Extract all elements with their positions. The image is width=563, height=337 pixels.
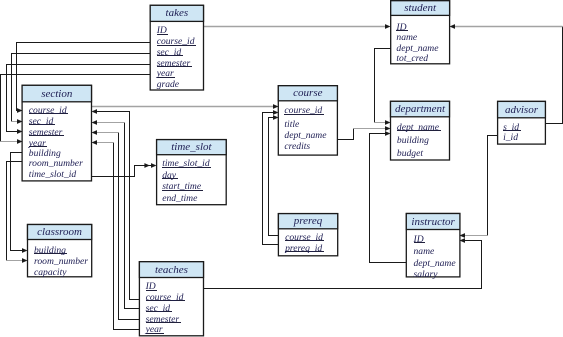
attr section.sec_id	[29, 116, 55, 128]
attr department.building	[397, 135, 429, 147]
attr takes.course_id	[157, 36, 196, 48]
wire takes.course_id to section	[17, 43, 151, 113]
table department box	[391, 101, 450, 160]
wire takes.sec_id to section	[12, 54, 151, 122]
table prereq box	[278, 214, 337, 256]
wire advisor.i_id wire	[488, 136, 498, 236]
wire section.room_number wire	[7, 162, 23, 261]
wire teaches.sec_id wire	[125, 123, 140, 309]
table prereq title	[278, 214, 337, 228]
attr advisor.s_id	[503, 122, 521, 134]
attr classroom.building	[34, 245, 67, 257]
table course box	[278, 86, 337, 155]
wire teaches.course_id to section	[92, 109, 140, 299]
attr section.room_number	[29, 158, 83, 170]
wire section.time_slot_id to time_slot	[92, 163, 157, 176]
attr prereq.course_id	[285, 232, 324, 244]
attr time_slot.day	[162, 170, 177, 182]
attr takes.grade	[157, 79, 179, 91]
table time_slot title	[157, 140, 227, 154]
table instructor title	[406, 215, 460, 229]
attr student.dept_name	[396, 43, 438, 55]
table department title	[391, 102, 450, 116]
table section box	[22, 85, 91, 181]
attr teaches.ID	[146, 281, 158, 293]
attr department.budget	[397, 148, 423, 160]
table section title	[22, 87, 91, 101]
attr prereq.prereq_id	[285, 243, 324, 255]
attr course.dept_name	[284, 130, 326, 142]
wire advisor.s_id wire	[546, 27, 563, 124]
wire takes.year to section	[1, 75, 151, 142]
wire advisor.s_id to student gray	[450, 24, 563, 29]
attr classroom.capacity	[34, 267, 67, 279]
wire course.dept_name arrow seg	[354, 126, 391, 131]
attr time_slot.start_time	[162, 181, 202, 193]
table advisor box	[498, 101, 546, 144]
attr takes.sec_id	[157, 47, 183, 59]
attr course.title	[284, 119, 299, 131]
table classroom title	[28, 225, 92, 239]
attr instructor.ID	[414, 234, 426, 246]
table takes title	[150, 6, 203, 20]
wire student.dept_name wire	[375, 49, 391, 123]
attr instructor.salary	[414, 269, 438, 281]
attr time_slot.end_time	[162, 193, 197, 205]
attr section.time_slot_id	[29, 169, 76, 181]
wire teaches.year arrow seg	[92, 140, 114, 145]
attr time_slot.time_slot_id	[162, 158, 211, 170]
table student title	[391, 1, 450, 15]
attr instructor.name	[414, 246, 435, 258]
wire takes.year arrow seg	[1, 139, 23, 144]
wire section.building to classroom	[11, 153, 28, 253]
table time_slot box	[157, 140, 227, 205]
wire teaches.sec_id arrow seg	[92, 120, 125, 125]
attr classroom.room_number	[34, 256, 88, 268]
table takes box	[150, 5, 203, 90]
wire teaches.semester arrow seg	[92, 130, 119, 135]
attr student.name	[396, 32, 417, 44]
wire takes.ID to student.ID gray	[204, 24, 391, 29]
attr section.course_id	[29, 105, 68, 117]
wire teaches.ID to instructor.ID	[204, 238, 482, 288]
wire prereq.course_id to course	[269, 115, 279, 235]
attr student.tot_cred	[396, 53, 428, 65]
attr takes.semester	[157, 58, 192, 70]
attr teaches.semester	[146, 314, 181, 326]
attr course.credits	[284, 141, 310, 153]
attr course.course_id	[284, 105, 323, 117]
wire student.dept_name arrow seg	[375, 120, 391, 125]
attr student.ID	[396, 22, 408, 34]
table classroom box	[28, 225, 92, 277]
table instructor box	[406, 214, 460, 277]
table teaches title	[139, 263, 203, 277]
attr instructor.dept_name	[414, 258, 456, 270]
attr takes.ID	[157, 25, 169, 37]
attr department.dept_name	[397, 122, 441, 134]
wire takes.semester to section	[7, 65, 151, 134]
table teaches box	[139, 262, 203, 336]
table student box	[391, 1, 450, 64]
attr teaches.year	[146, 324, 165, 336]
wire course.dept_name wire	[338, 129, 354, 140]
attr teaches.sec_id	[146, 303, 172, 315]
table course title	[278, 86, 337, 100]
wire section.course_id to course gray	[92, 104, 279, 109]
attr section.semester	[29, 127, 64, 139]
attr teaches.course_id	[146, 292, 185, 304]
attr section.year	[29, 138, 48, 150]
wire advisor.i_id arrow seg	[460, 233, 488, 238]
wire takes.sec_id arrow seg	[12, 119, 23, 124]
attr takes.year	[157, 68, 176, 80]
wire prereq.prereq_id to course	[263, 110, 279, 244]
table advisor title	[498, 103, 546, 117]
wire teaches.year wire	[114, 143, 140, 330]
wire section.room_number arrow seg	[7, 258, 28, 263]
attr section.building	[29, 148, 61, 160]
attr advisor.i_id	[503, 132, 518, 144]
wire instructor.dept_name to department	[370, 131, 407, 262]
wire teaches.semester wire	[119, 133, 140, 320]
